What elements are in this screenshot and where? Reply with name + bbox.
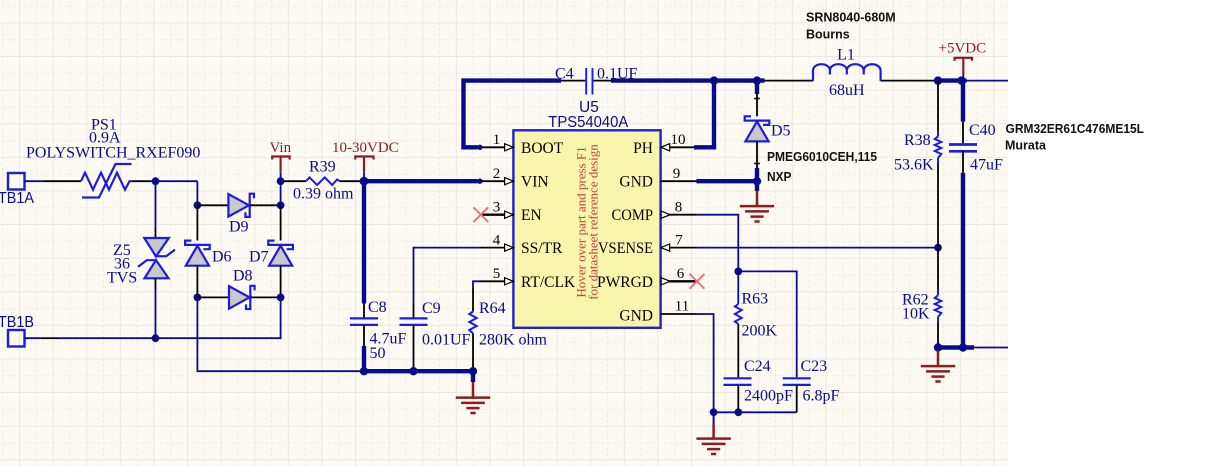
- wire RT/CLK to R64: [473, 281, 481, 288]
- resistor R63: [737, 271, 739, 304]
- resistor R64: [469, 312, 476, 334]
- svg-text:C8: C8: [368, 299, 387, 316]
- svg-text:PWRGD: PWRGD: [597, 274, 653, 291]
- wire +5VDC rail thick: [938, 78, 967, 82]
- svg-text:TPS54040A: TPS54040A: [548, 114, 629, 131]
- svg-text:Bourns: Bourns: [806, 28, 850, 42]
- wire GND9 thick: [697, 179, 758, 183]
- svg-text:D5: D5: [771, 123, 791, 140]
- resistor R39: [306, 177, 340, 185]
- svg-text:3: 3: [493, 199, 501, 215]
- svg-text:GND: GND: [619, 174, 653, 191]
- wire Z5 bottom: [155, 278, 157, 289]
- svg-text:7: 7: [675, 232, 683, 248]
- wire C24/C23 bottom rail: [714, 411, 797, 413]
- svg-text:R38: R38: [904, 132, 931, 149]
- IC U5 TPS54040A body: [513, 130, 660, 327]
- polyswitch PS1: [81, 173, 132, 190]
- svg-text:VSENSE: VSENSE: [598, 240, 653, 257]
- svg-text:PMEG6010CEH,115: PMEG6010CEH,115: [767, 150, 877, 164]
- ground under R64: [471, 371, 475, 382]
- wire Vin node to R39: [283, 180, 306, 182]
- pin 5 RT/CLK: [481, 280, 514, 282]
- no connect X pin 6: [690, 274, 705, 289]
- power port Vin: [280, 157, 282, 173]
- pin 11 GND: [661, 313, 697, 315]
- junction R64 bottom: [469, 367, 477, 375]
- diode D6: [196, 205, 198, 240]
- wire C40 thick down: [961, 81, 965, 122]
- diode D9: [197, 204, 228, 206]
- svg-text:0.39 ohm: 0.39 ohm: [293, 186, 354, 203]
- svg-text:9: 9: [673, 166, 681, 182]
- resistor R38: [937, 81, 939, 131]
- ground under pin 11: [713, 412, 715, 423]
- TVS diode Z5: [144, 238, 169, 257]
- ground under R62: [921, 351, 955, 382]
- svg-text:COMP: COMP: [612, 207, 654, 224]
- svg-text:+5VDC: +5VDC: [939, 41, 987, 57]
- wire Vin node up: [280, 181, 282, 205]
- junction PH top: [710, 76, 718, 84]
- capacitor C8: [350, 317, 378, 319]
- svg-text:Vin: Vin: [270, 140, 292, 156]
- junction pin11 ground: [710, 408, 718, 416]
- svg-text:53.6K: 53.6K: [894, 157, 934, 174]
- pin 4 SS/TR: [481, 247, 514, 249]
- inductor L1: [813, 64, 881, 81]
- svg-text:6: 6: [677, 266, 685, 282]
- wire R39 to VIN node: [340, 180, 364, 182]
- svg-text:C40: C40: [969, 122, 996, 139]
- junction D9 anode / D6: [194, 201, 202, 209]
- capacitor C23: [783, 377, 811, 379]
- svg-text:C24: C24: [744, 358, 771, 375]
- junction C40 bottom: [959, 343, 967, 351]
- wire VSENSE long: [697, 247, 939, 249]
- junction VSENSE / R38 / R62: [934, 244, 942, 252]
- ground under D5: [755, 181, 759, 191]
- wire C4 to PH node thick: [594, 80, 612, 82]
- svg-text:SS/TR: SS/TR: [521, 240, 563, 257]
- svg-text:47uF: 47uF: [970, 157, 1003, 174]
- junction C24 bottom: [734, 408, 742, 416]
- pin 7 VSENSE: [661, 247, 697, 249]
- svg-text:POLYSWITCH_RXEF090: POLYSWITCH_RXEF090: [26, 145, 200, 162]
- svg-text:50: 50: [370, 345, 386, 362]
- svg-text:R63: R63: [742, 291, 769, 308]
- svg-text:2400pF: 2400pF: [744, 388, 793, 405]
- wire D6/D8 node down to ground rail: [197, 297, 362, 371]
- wire BOOT thick: [464, 81, 562, 148]
- wire SS/TR to C9: [414, 248, 481, 304]
- pin 3 EN: [481, 213, 514, 215]
- pin 1 BOOT: [481, 146, 514, 148]
- svg-text:L1: L1: [837, 47, 855, 64]
- junction D9 cathode / D7 / Vin: [277, 201, 285, 209]
- wire PS1 to node: [132, 180, 150, 182]
- svg-text:D9: D9: [229, 219, 249, 236]
- wire PS1 node down to D9: [196, 181, 198, 205]
- svg-text:PH: PH: [633, 140, 653, 157]
- svg-text:C4: C4: [555, 66, 574, 83]
- svg-text:6.8pF: 6.8pF: [803, 388, 840, 405]
- junction R38 top: [934, 76, 942, 84]
- diode D8: [197, 296, 228, 298]
- svg-text:TB1A: TB1A: [0, 190, 34, 207]
- junction Vin: [277, 177, 285, 185]
- svg-text:GND: GND: [619, 308, 653, 325]
- power port 10-30VDC: [363, 157, 365, 173]
- junction C9 bottom: [409, 367, 417, 375]
- junction D7 / D8 cathode: [277, 294, 285, 302]
- svg-text:TB1B: TB1B: [0, 314, 34, 331]
- capacitor C9: [400, 317, 428, 319]
- wire L1 to +5VDC node: [881, 80, 938, 82]
- wire TB1B rail: [25, 337, 43, 339]
- pin 10 PH: [661, 146, 697, 148]
- svg-text:1: 1: [493, 132, 501, 148]
- junction D5 top: [753, 76, 761, 84]
- wire VIN thick to pin 2: [364, 179, 478, 183]
- wire C40 bottom to R62 ground: [936, 345, 974, 349]
- capacitor C40: [949, 143, 977, 146]
- resistor R62: [937, 248, 939, 290]
- svg-text:C9: C9: [422, 300, 441, 317]
- svg-text:GRM32ER61C476ME15L: GRM32ER61C476ME15L: [1006, 122, 1145, 136]
- junction Z5 bottom on TB1B rail: [152, 334, 160, 342]
- capacitor C24: [724, 377, 752, 379]
- pin 8 COMP: [661, 214, 697, 216]
- junction COMP node: [734, 268, 742, 276]
- terminal TB1A: [8, 173, 25, 190]
- power port +5VDC: [962, 59, 964, 75]
- junction C40 top: [957, 76, 965, 84]
- U5 internal note text: [574, 144, 601, 300]
- svg-text:280K ohm: 280K ohm: [479, 332, 548, 349]
- svg-text:VIN: VIN: [521, 174, 549, 191]
- wire pin11 GND down: [697, 314, 714, 412]
- svg-text:4: 4: [493, 232, 501, 248]
- junction D5 bottom: [753, 177, 761, 185]
- diode D7: [280, 205, 282, 240]
- svg-text:TVS: TVS: [107, 270, 137, 287]
- svg-text:EN: EN: [521, 207, 542, 224]
- capacitor C4: [585, 68, 587, 95]
- svg-text:BOOT: BOOT: [521, 140, 564, 157]
- junction VIN node: [360, 177, 369, 186]
- svg-text:8: 8: [675, 199, 683, 215]
- svg-text:D7: D7: [249, 249, 269, 266]
- svg-text:10: 10: [671, 132, 686, 148]
- wire Z5 top: [155, 181, 157, 228]
- svg-text:Murata: Murata: [1005, 139, 1047, 153]
- wire COMP to R63/C23: [697, 215, 739, 272]
- svg-text:5: 5: [493, 266, 501, 282]
- ground rail thick: [362, 369, 473, 373]
- wire VIN thick down to C8: [362, 181, 366, 303]
- junction D6 / D8 anode: [194, 294, 202, 302]
- svg-text:R39: R39: [309, 159, 336, 176]
- junction C8 bottom: [360, 367, 368, 375]
- no connect X pin 3: [473, 207, 488, 222]
- wire PH vertical thick: [694, 81, 714, 148]
- svg-text:68uH: 68uH: [829, 82, 865, 99]
- svg-text:D6: D6: [212, 249, 232, 266]
- svg-text:0.01UF: 0.01UF: [422, 332, 471, 349]
- svg-text:10-30VDC: 10-30VDC: [332, 140, 399, 156]
- svg-text:SRN8040-680M: SRN8040-680M: [806, 11, 896, 25]
- junction Z5 tap: [152, 177, 160, 185]
- wire D5 node to L1: [765, 80, 814, 82]
- svg-text:R64: R64: [479, 300, 506, 317]
- terminal TB1B: [8, 330, 25, 347]
- wire TB1A to PS1: [25, 180, 45, 182]
- svg-text:RT/CLK: RT/CLK: [521, 274, 576, 291]
- pin 2 VIN: [481, 180, 514, 182]
- wire COMP node to C23: [738, 271, 796, 377]
- svg-text:C23: C23: [801, 358, 828, 375]
- svg-text:2: 2: [493, 166, 501, 182]
- svg-text:11: 11: [675, 299, 689, 315]
- junction R62 bottom: [934, 343, 942, 351]
- svg-text:10K: 10K: [902, 306, 930, 323]
- pin 6 PWRGD: [661, 280, 698, 282]
- pin 9 GND: [661, 180, 697, 182]
- svg-text:D8: D8: [233, 268, 253, 285]
- svg-text:NXP: NXP: [767, 170, 792, 184]
- svg-text:200K: 200K: [742, 323, 778, 340]
- diode D5: [755, 81, 759, 94]
